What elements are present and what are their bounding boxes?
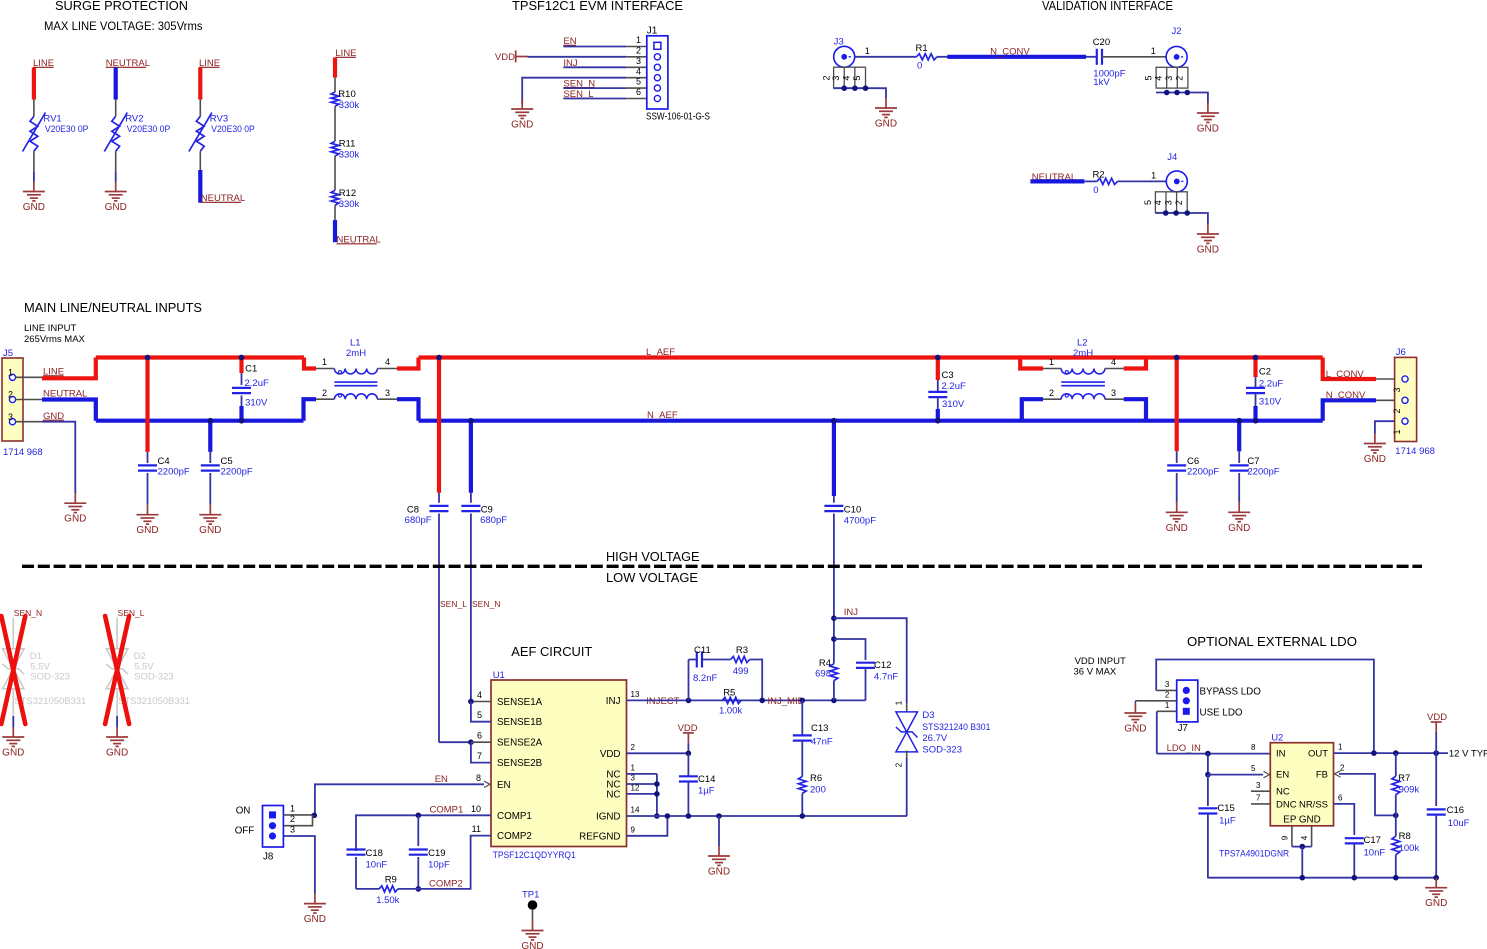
wire J3 shield rail (834, 88, 886, 98)
junction INJECT / C11 branch (686, 698, 692, 704)
svg-text:GND: GND (511, 120, 533, 131)
connector J2 symbol (1144, 46, 1188, 88)
wire C12 bottom (865, 668, 867, 700)
svg-text:680pF: 680pF (480, 515, 507, 526)
wire C2 top thin (1255, 377, 1257, 388)
wire D2 bottom (116, 688, 118, 716)
svg-text:2: 2 (1392, 408, 1402, 413)
svg-text:1714 968: 1714 968 (1395, 446, 1435, 457)
ground GND (C7) (1228, 502, 1250, 521)
svg-text:ON: ON (236, 805, 251, 816)
svg-text:SURGE PROTECTION: SURGE PROTECTION (55, 0, 188, 13)
svg-text:GND: GND (1197, 245, 1219, 256)
svg-text:5: 5 (852, 76, 862, 81)
svg-text:36 V MAX: 36 V MAX (1074, 667, 1117, 678)
wire NC tie vertical (656, 774, 658, 816)
capacitor C4 (138, 465, 157, 470)
svg-text:LINE INPUT: LINE INPUT (24, 323, 76, 334)
wire U2 pin3 NC stub (1251, 790, 1270, 792)
wire GND to J1 pin4 (522, 78, 626, 104)
wire SEN_N to J1 pin5 (563, 87, 626, 89)
wire J5 pin1 stub (16, 376, 43, 378)
regulator U2 (TPS7A4901) (1270, 743, 1333, 826)
wire INJ to D3 (834, 618, 907, 703)
svg-text:2: 2 (895, 762, 904, 767)
power VDD (LDO) (1427, 712, 1447, 732)
wire L bus step down to L1 (304, 358, 316, 369)
svg-text:2: 2 (1165, 690, 1170, 699)
junction N bus / C1 (239, 418, 245, 424)
svg-text:GND: GND (136, 525, 158, 536)
capacitor C13 (793, 735, 812, 740)
svg-text:C10: C10 (844, 505, 861, 516)
junction GND rail / R8 (1393, 875, 1399, 881)
junction GND rail / C16 (1433, 875, 1439, 881)
wire L bus to L_CONV (red) (1323, 358, 1376, 380)
svg-text:LOW VOLTAGE: LOW VOLTAGE (606, 570, 698, 585)
wire D3 pin1 stub (906, 703, 908, 712)
wire R3 to INJ_MID corner (750, 660, 763, 701)
junction INJ_MID (759, 698, 765, 704)
svg-text:11: 11 (472, 824, 481, 834)
svg-text:GND: GND (199, 525, 221, 536)
svg-text:SOD-323: SOD-323 (134, 672, 174, 683)
svg-text:C14: C14 (698, 774, 715, 785)
wire J7 pin3 stub (1156, 689, 1177, 691)
wire C8 top thin (438, 493, 440, 503)
wire R10-R11 (334, 106, 336, 141)
wire C2 bottom (blue) (1253, 406, 1257, 421)
svg-text:J7: J7 (1178, 723, 1188, 734)
svg-text:1.00k: 1.00k (719, 705, 742, 716)
varistor RV3 (189, 113, 212, 152)
svg-text:1: 1 (1338, 743, 1343, 752)
wire LINE stub RV3 (198, 68, 202, 100)
connector J1 (647, 36, 668, 109)
svg-text:6: 6 (1338, 794, 1343, 803)
wire pin4-pin5 tie (471, 702, 491, 722)
svg-text:TPS7A4901DGNR: TPS7A4901DGNR (1219, 849, 1289, 860)
svg-text:C17: C17 (1364, 835, 1381, 846)
svg-text:100k: 100k (1399, 843, 1420, 854)
svg-text:2mH: 2mH (346, 348, 366, 359)
svg-text:3: 3 (1164, 76, 1174, 81)
wire C10 riser (blue) (832, 421, 836, 496)
junction L bus / C6 (1174, 355, 1180, 361)
capacitor C16 (1427, 809, 1446, 814)
U2 pin5 EN arrow (1264, 771, 1270, 777)
wire C3 bottom (blue) (936, 409, 940, 421)
wire C13 top (801, 700, 803, 735)
svg-text:EN: EN (497, 780, 511, 791)
varistor RV1 (23, 113, 46, 152)
wire C16 top (1435, 753, 1437, 806)
junction COMP2 / C19 (416, 886, 422, 892)
wire C4 bottom (147, 473, 149, 505)
U2 pin names (1276, 749, 1328, 826)
wire C6 top thin (1176, 451, 1178, 463)
wire C1 bottom thin (241, 396, 243, 407)
svg-text:2200pF: 2200pF (221, 467, 253, 478)
svg-text:4: 4 (1111, 357, 1116, 367)
svg-text:4: 4 (842, 76, 852, 81)
svg-text:SENSE2A: SENSE2A (497, 738, 543, 749)
resistor R1 (916, 54, 937, 60)
svg-text:GND: GND (106, 748, 128, 759)
test point TP1 (528, 900, 538, 910)
svg-text:COMP1: COMP1 (430, 805, 464, 816)
svg-text:GND: GND (304, 914, 326, 925)
junction N bus / C9 (468, 418, 474, 424)
wire L2 pin4 (1105, 368, 1124, 370)
svg-text:2: 2 (8, 390, 13, 400)
wire C3 top (red) (936, 358, 940, 381)
wire RV3 bottom (199, 151, 201, 170)
capacitor C1 (232, 388, 251, 393)
svg-text:GND: GND (1197, 124, 1219, 135)
wire U1 pin6 (471, 741, 491, 743)
capacitor C6 (1167, 465, 1186, 470)
svg-text:STS321050B331: STS321050B331 (118, 696, 190, 707)
wire U1 pin13 INJECT rail (627, 699, 866, 701)
wire R11-R12 (334, 156, 336, 190)
svg-text:U2: U2 (1271, 733, 1283, 744)
svg-text:1: 1 (636, 35, 641, 45)
varistor RV2 (104, 113, 127, 152)
U1 pin names (497, 696, 621, 842)
wire U1 pin9 REFGND (627, 816, 668, 836)
svg-text:5: 5 (477, 710, 482, 720)
svg-text:0: 0 (917, 61, 922, 72)
wire C5 riser (blue) (208, 421, 212, 452)
wire R7 to FB node (1395, 795, 1397, 816)
capacitor C18 (347, 850, 366, 855)
wire N_CONV to C20 (1086, 56, 1097, 58)
svg-text:10uF: 10uF (1448, 818, 1470, 829)
connector J4 symbol (1143, 171, 1188, 213)
wire L_AEF bus (red) (419, 355, 1323, 359)
wire C2 bottom thin (1255, 393, 1257, 406)
svg-text:8: 8 (476, 773, 481, 783)
svg-text:1: 1 (290, 803, 295, 813)
junction N bus / C10 (831, 418, 837, 424)
svg-text:7: 7 (1256, 794, 1261, 803)
junction GND rail / EP (1300, 875, 1306, 881)
wire NEUTRAL stub RV2 (114, 68, 118, 100)
wire C3 bottom thin (937, 397, 939, 409)
svg-text:J6: J6 (1396, 347, 1406, 358)
resistor R2 (1097, 178, 1118, 184)
svg-text:STS321240 B301: STS321240 B301 (922, 722, 990, 733)
connector J5 (2, 358, 23, 441)
svg-text:EP GND: EP GND (1283, 814, 1320, 825)
svg-text:909k: 909k (1399, 785, 1420, 796)
ground GND (TP1) (522, 921, 544, 940)
wire N bus step up to L1 (304, 399, 317, 421)
wire C11 top left (689, 659, 697, 661)
ground GND (D1) (2, 727, 24, 746)
wire NEUTRAL to R2 (1084, 180, 1097, 182)
svg-text:5: 5 (1144, 75, 1154, 80)
svg-text:C15: C15 (1217, 803, 1234, 814)
junction J3 shield dots (841, 85, 868, 91)
svg-text:2.2uF: 2.2uF (1259, 379, 1283, 390)
svg-text:R6: R6 (810, 773, 822, 784)
junction J2 shield dots (1164, 90, 1190, 96)
wire RV2 bottom (115, 151, 117, 172)
ground GND (C5) (199, 505, 221, 524)
resistor R3 (731, 656, 750, 662)
junction OUT / R7 (1393, 750, 1399, 756)
svg-text:200: 200 (810, 785, 826, 796)
svg-text:3: 3 (1256, 781, 1261, 790)
ground GND (J2) (1197, 103, 1219, 122)
svg-text:R11: R11 (339, 139, 356, 150)
wire U2 FB branch (1339, 774, 1396, 816)
svg-text:C12: C12 (874, 660, 891, 671)
capacitor C11 (697, 652, 702, 668)
svg-text:NC: NC (606, 789, 620, 800)
svg-text:3: 3 (1163, 200, 1173, 205)
svg-text:R10: R10 (338, 89, 355, 100)
svg-text:VDD: VDD (495, 52, 515, 63)
svg-text:2: 2 (1174, 200, 1184, 205)
svg-text:TPSF12C1 EVM INTERFACE: TPSF12C1 EVM INTERFACE (512, 0, 683, 13)
junction J4 shield dots (1163, 210, 1190, 216)
svg-text:2: 2 (631, 743, 636, 752)
junction COMP1 / C19 (416, 813, 422, 819)
svg-text:U1: U1 (493, 670, 505, 681)
wire J8 pin2 (283, 815, 312, 825)
ground GND (C4) (137, 505, 159, 524)
connector J4 (1167, 152, 1177, 163)
wire J5 pin3 stub (16, 421, 43, 423)
capacitor C9 (461, 506, 480, 511)
resistor R4 (830, 664, 838, 681)
svg-text:3: 3 (1165, 680, 1170, 689)
svg-text:SEN_N: SEN_N (472, 599, 500, 609)
svg-text:GND: GND (2, 748, 24, 759)
wire VDD stub to OUT rail (1435, 732, 1437, 753)
svg-text:C13: C13 (811, 723, 828, 734)
connector J6 (1395, 357, 1417, 441)
svg-text:COMP2: COMP2 (429, 879, 463, 890)
wire COMP2 rail left (356, 888, 379, 890)
wire C9 top thin (470, 493, 472, 503)
svg-text:AEF CIRCUIT: AEF CIRCUIT (511, 644, 592, 659)
DNP cross D1 (1, 616, 25, 724)
wire C6 riser (red) (1175, 358, 1179, 452)
svg-text:MAX LINE VOLTAGE: 305Vrms: MAX LINE VOLTAGE: 305Vrms (44, 19, 203, 33)
ground GND (J1) (511, 99, 533, 118)
svg-text:VDD: VDD (600, 749, 621, 760)
wire TP1 to GND (532, 910, 534, 921)
resistor R7 (1392, 776, 1400, 794)
resistor R6 (798, 777, 806, 794)
junction N bus / C2 (1253, 418, 1259, 424)
svg-text:310V: 310V (942, 399, 965, 410)
power VDD (U1) (678, 723, 698, 743)
wire NEUTRAL stub RV3 (198, 170, 202, 203)
capacitor C14 (679, 776, 698, 781)
connector J7 (1177, 680, 1198, 722)
junction C13 / INJECT rail (800, 698, 806, 704)
svg-text:GND: GND (1364, 454, 1386, 465)
wire INJ to J1 pin3 (563, 66, 626, 68)
svg-text:R3: R3 (736, 645, 748, 656)
junction L bus / C4 (145, 355, 151, 361)
svg-text:2: 2 (290, 814, 295, 824)
svg-text:4: 4 (1154, 76, 1164, 81)
wire SEN_L vertical (438, 514, 440, 743)
wire N bus left (blue) (96, 419, 304, 423)
svg-text:SOD-323: SOD-323 (922, 744, 962, 755)
svg-text:C3: C3 (942, 370, 954, 381)
wire U2 OUT rail (1334, 752, 1449, 754)
svg-text:1714 968: 1714 968 (3, 447, 43, 458)
wire U1 NC pin3 (627, 783, 657, 785)
svg-text:TPSF12C1QDYYRQ1: TPSF12C1QDYYRQ1 (493, 850, 576, 861)
wire R6 bottom (801, 793, 803, 816)
svg-text:USE LDO: USE LDO (1200, 707, 1243, 718)
ground GND (C6) (1166, 502, 1188, 521)
svg-text:C20: C20 (1093, 37, 1110, 48)
junction FB / R7 R8 (1393, 813, 1399, 819)
svg-text:GND: GND (1425, 898, 1447, 909)
wire R1 to N_CONV (937, 56, 949, 58)
wire L1 pin2 (316, 398, 334, 400)
junction LDO_IN / C15 (1205, 751, 1211, 757)
resistor R5 (722, 697, 741, 703)
svg-text:C2: C2 (1259, 367, 1271, 378)
wire C16 bottom (1435, 815, 1437, 878)
junction NC pin3 (654, 781, 660, 787)
svg-text:N_AEF: N_AEF (647, 410, 678, 421)
wire D3 to IGND rail (906, 758, 908, 816)
op-amp U1 (TPSF12C1) (491, 680, 627, 847)
svg-text:C16: C16 (1447, 805, 1464, 816)
svg-text:330k: 330k (339, 100, 360, 111)
wire C11 branch up (688, 660, 690, 701)
svg-text:L_AEF: L_AEF (646, 347, 675, 358)
wire L1 pin4 to L bus (red) (397, 358, 419, 369)
svg-text:2.2uF: 2.2uF (245, 378, 269, 389)
svg-text:J2: J2 (1172, 26, 1182, 37)
ground GND (J7) (1124, 703, 1146, 722)
connector J3 (834, 36, 844, 47)
capacitor C3 (928, 392, 947, 397)
svg-text:MAIN LINE/NEUTRAL INPUTS: MAIN LINE/NEUTRAL INPUTS (24, 300, 202, 315)
svg-text:R7: R7 (1398, 773, 1410, 784)
wire C3 top thin (937, 380, 939, 392)
wire C4 top thin (147, 452, 149, 463)
wire C1 top thin (241, 373, 243, 385)
ground GND (J4) (1197, 224, 1219, 243)
ground GND (J6) (1364, 434, 1386, 453)
DNP cross D2 (105, 616, 129, 724)
capacitor C8 (430, 506, 449, 511)
svg-text:VDD INPUT: VDD INPUT (1075, 656, 1126, 667)
wire C8 riser (red) (437, 358, 441, 493)
svg-text:3: 3 (1111, 388, 1116, 398)
svg-text:RV2: RV2 (125, 113, 143, 124)
svg-text:R12: R12 (339, 188, 356, 199)
capacitor C19 (409, 850, 428, 855)
svg-text:N_CONV: N_CONV (1326, 390, 1366, 401)
wire LDO GND rail (1208, 877, 1436, 879)
svg-text:9: 9 (631, 826, 636, 835)
svg-text:SENSE1B: SENSE1B (497, 717, 543, 728)
svg-text:6: 6 (636, 87, 641, 97)
wire C20 to J2 pin1 (1102, 56, 1166, 58)
ground GND (J8) (304, 894, 326, 913)
junction EP GND tie (1300, 844, 1306, 850)
junction J8 pin1/pin2/EN (312, 813, 318, 819)
wire N_CONV to J6 pin2 (1376, 399, 1402, 401)
svg-text:C18: C18 (366, 848, 383, 859)
wire D2 top (116, 618, 118, 650)
wire U1 pin2 VDD (627, 752, 689, 754)
wire R10 top (334, 78, 336, 92)
svg-text:L2: L2 (1077, 338, 1088, 349)
wire C13 to R6 (801, 741, 803, 777)
svg-text:1: 1 (1151, 171, 1156, 181)
wire pin6-pin7 tie (471, 742, 491, 762)
svg-text:GND: GND (708, 867, 730, 878)
resistor R11 (331, 141, 339, 156)
svg-text:SEN_L: SEN_L (440, 599, 467, 609)
svg-text:3: 3 (1392, 387, 1402, 392)
diode D2 (DNP TVS) (106, 649, 128, 689)
capacitor C5 (201, 465, 220, 470)
wire EN to U2 pin5 (1208, 774, 1263, 776)
svg-text:D2: D2 (134, 651, 146, 662)
svg-text:2: 2 (1049, 388, 1054, 398)
wire J8 pin3 to GND (283, 836, 315, 894)
svg-text:INJECT: INJECT (646, 696, 679, 707)
wire L bus step down to L2 (1020, 358, 1043, 369)
junction dots overlay (bus junctions) (145, 355, 1259, 424)
wire L1 pin4 (377, 368, 397, 370)
wire J8 pin1 (283, 814, 315, 816)
wire C19 top (417, 815, 419, 846)
svg-text:4: 4 (1153, 200, 1163, 205)
junction OUT / VDD C16 (1433, 750, 1439, 756)
wire R2 to J4 pin1 (1118, 180, 1167, 182)
svg-text:3: 3 (8, 412, 13, 422)
wire GND drop (718, 816, 720, 846)
svg-text:HIGH VOLTAGE: HIGH VOLTAGE (606, 549, 700, 564)
svg-text:4: 4 (1300, 835, 1309, 840)
capacitor C10 (824, 506, 843, 511)
svg-text:J5: J5 (3, 348, 13, 359)
wire LINE thick to L bus (42, 358, 96, 379)
wire SEN_N to U1 pin4 (471, 701, 491, 703)
svg-text:4: 4 (636, 66, 641, 76)
wire COMP1 rail (356, 815, 491, 851)
svg-text:8: 8 (1251, 743, 1256, 752)
svg-text:1kV: 1kV (1093, 77, 1110, 88)
wire L1 pin3 (377, 398, 397, 400)
wire C15 vertical top (1207, 754, 1209, 775)
wire L2 pin4 to L bus (red) (1124, 358, 1146, 369)
wire R4 top (833, 618, 835, 664)
wire C5 top thin (209, 452, 211, 463)
svg-text:1: 1 (1151, 46, 1156, 56)
capacitor C7 (1230, 465, 1249, 470)
junction N bus / C5 (208, 418, 214, 424)
svg-text:C1: C1 (245, 364, 257, 375)
